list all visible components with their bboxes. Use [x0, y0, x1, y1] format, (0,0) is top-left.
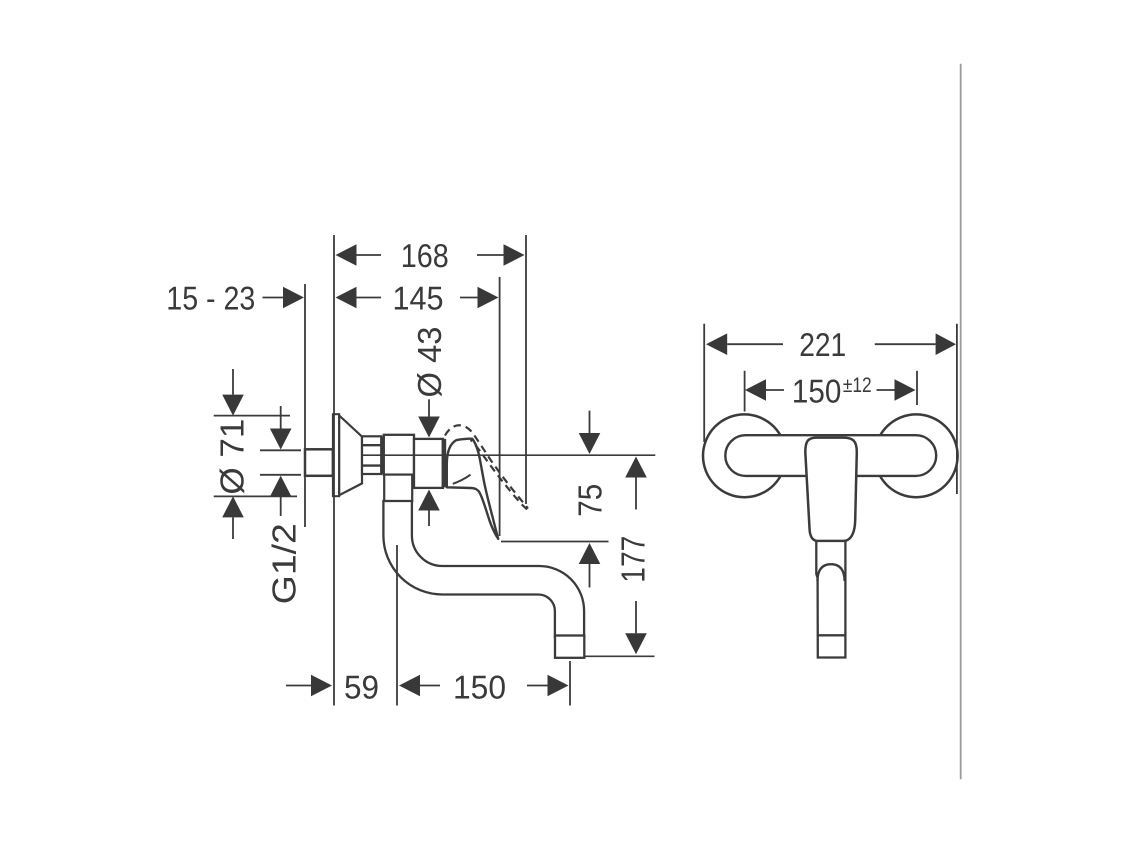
svg-text:145: 145 — [392, 279, 443, 316]
swivel spout mount collar — [384, 475, 412, 502]
dim 145 right arrow — [460, 297, 478, 299]
svg-text:±12: ±12 — [843, 374, 872, 397]
wall pipe stub (G1/2 connection) — [305, 449, 333, 476]
ext line 221 left — [703, 324, 705, 442]
lever dashed alternate position outer — [445, 425, 528, 508]
svg-text:177: 177 — [615, 536, 652, 583]
extension line spout axis x397 — [396, 545, 398, 706]
dim 221 left arrow — [727, 343, 783, 345]
svg-text:150: 150 — [792, 372, 841, 409]
svg-text:75: 75 — [571, 484, 608, 517]
svg-text:221: 221 — [799, 326, 846, 363]
union nut — [362, 436, 381, 474]
lever grip dome line — [817, 564, 844, 581]
cartridge housing — [414, 439, 443, 488]
dim dia43 top arrow — [428, 399, 430, 416]
dim G12 ticks — [260, 449, 301, 451]
svg-text:59: 59 — [344, 668, 379, 705]
escutcheon cone — [339, 416, 362, 496]
dim 177 top arrow — [635, 478, 637, 510]
right escutcheon circle — [875, 414, 958, 497]
nut ring — [382, 436, 384, 474]
dim G12 bottom arrow — [280, 497, 282, 516]
lever tip line — [818, 634, 846, 636]
dim G12 top arrow — [280, 406, 282, 429]
dim 59 left arrow — [286, 685, 311, 687]
aerator — [555, 636, 584, 658]
centerline axis — [362, 454, 655, 456]
spout bottom reference line — [584, 655, 655, 657]
svg-text:G1/2: G1/2 — [266, 523, 303, 604]
dim 221 right arrow — [875, 343, 936, 345]
dim 150pm right arrow — [877, 389, 895, 391]
dim 150 right arrow — [527, 685, 548, 687]
dim 15-23 arrow — [263, 297, 284, 299]
body bar capsule — [725, 435, 936, 476]
left escutcheon circle — [703, 414, 786, 497]
dim 75 bottom arrow — [589, 564, 591, 588]
dim 150pm left arrow — [766, 389, 784, 391]
ext line 150 right — [916, 371, 918, 405]
svg-text:150: 150 — [453, 668, 506, 705]
lever crease detail — [453, 475, 471, 484]
svg-text:15 - 23: 15 - 23 — [166, 279, 255, 316]
dim dia71 ticks — [214, 415, 290, 417]
cartridge end cap band — [442, 439, 447, 487]
dim 168 right arrow — [477, 254, 504, 256]
svg-text:Ø 43: Ø 43 — [411, 327, 448, 398]
valve body tulip — [805, 438, 857, 541]
extension line lever tip x500 — [499, 277, 501, 536]
dim dia43 bottom arrow — [428, 511, 430, 527]
nut rib lower — [362, 464, 381, 466]
dim 168 left arrow — [357, 254, 382, 256]
ext line 221 right — [956, 324, 958, 494]
escutcheon back plate — [333, 414, 339, 496]
dim dia71 top arrow — [232, 369, 234, 395]
dim 75 top arrow — [589, 411, 591, 433]
dim 177 bottom arrow — [635, 601, 637, 633]
extension line stub end x305 — [304, 284, 306, 527]
page divider line — [960, 64, 962, 779]
svg-text:Ø 71: Ø 71 — [214, 419, 251, 495]
spout tube outline — [383, 501, 584, 637]
lever shaft front — [816, 541, 845, 658]
dim dia71 bottom arrow — [232, 517, 234, 539]
dim 150 left arrow — [420, 685, 440, 687]
lever dashed alternate position inner — [471, 440, 528, 510]
lever handle solid — [447, 439, 498, 539]
spout holder body — [384, 435, 414, 475]
svg-text:168: 168 — [401, 237, 449, 274]
lever bottom reference line — [501, 541, 609, 543]
extension line aerator x570 — [569, 661, 571, 706]
nut rib upper — [362, 444, 381, 446]
extension line dashed lever tip x526 — [525, 235, 527, 504]
dim 145 left arrow — [357, 297, 382, 299]
ext line 150 left — [744, 371, 746, 412]
extension line wall face x334 — [333, 235, 335, 706]
